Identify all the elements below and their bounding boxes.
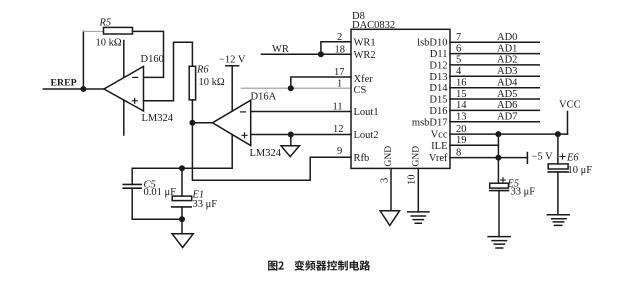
pin 14 number — [456, 100, 467, 111]
pin label D13 — [429, 72, 447, 83]
capacitor E5 polar plate — [490, 183, 509, 188]
pin label Vcc — [431, 130, 448, 141]
net label AD7 — [497, 112, 517, 123]
svg-text:D13: D13 — [429, 72, 447, 83]
svg-text:VCC: VCC — [559, 100, 581, 111]
pin 13 number — [456, 112, 467, 123]
IC U3 part number DAC0832 — [352, 20, 395, 31]
svg-text:R6: R6 — [196, 65, 209, 76]
svg-text:8: 8 — [456, 147, 461, 158]
svg-text:GND: GND — [384, 146, 394, 167]
net label AD2 — [497, 55, 517, 66]
svg-text:6: 6 — [456, 43, 461, 54]
wire op-amp U1 noninverting input to R6 top — [144, 42, 193, 101]
svg-text:AD3: AD3 — [497, 66, 517, 77]
wire AD0 pin 7 — [450, 41, 539, 43]
pin 20 number — [456, 124, 467, 135]
pin label Vref — [429, 153, 448, 164]
op-amp U2 D16A triangle — [213, 100, 251, 145]
net label AD5 — [497, 89, 517, 100]
capacitor E5 value — [511, 187, 536, 198]
pin 8 number — [456, 147, 461, 158]
wire branch to pin 17 Xfer — [291, 77, 351, 88]
capacitor E6 polar plate — [548, 164, 568, 169]
capacitor E1 value — [193, 199, 218, 210]
svg-text:Lout2: Lout2 — [354, 130, 379, 141]
svg-text:GND: GND — [411, 146, 421, 167]
capacitor C5 value — [144, 187, 177, 198]
svg-text:17: 17 — [334, 67, 345, 78]
svg-text:LM324: LM324 — [142, 113, 174, 124]
wire R5 right lead to inverting input — [133, 31, 164, 77]
pin label D14 — [429, 83, 448, 94]
power -12V bar — [226, 65, 239, 67]
node junction CS/Xfer — [288, 85, 294, 91]
svg-text:AD2: AD2 — [497, 55, 517, 66]
svg-text:15: 15 — [456, 89, 467, 100]
wire ground stub from Lout2 wire — [290, 135, 292, 146]
capacitor E1 label — [192, 190, 205, 201]
svg-text:E6: E6 — [566, 153, 579, 164]
svg-text:D16A: D16A — [251, 92, 277, 103]
svg-text:ILE: ILE — [431, 141, 447, 152]
svg-text:13: 13 — [456, 112, 467, 123]
svg-text:Vref: Vref — [429, 153, 448, 164]
pin label Rfb — [354, 153, 370, 164]
pin 6 number — [456, 43, 461, 54]
capacitor E5 label — [507, 179, 520, 190]
svg-text:10 kΩ: 10 kΩ — [96, 38, 122, 49]
op-amp U1 designator D160 — [141, 54, 164, 65]
node junction Vref E5 tap — [495, 155, 501, 161]
svg-text:D12: D12 — [429, 60, 447, 71]
pin label Lout1 — [354, 107, 379, 118]
wire op-amp U2 plus input to Lout2 pin 12 — [251, 134, 351, 136]
pin label D16 — [429, 106, 447, 117]
svg-text:WR2: WR2 — [354, 50, 376, 61]
wire tie pin20-pin19-pin8 vertical — [497, 134, 499, 158]
pin 17 number — [334, 67, 345, 78]
svg-text:Lout1: Lout1 — [354, 107, 379, 118]
node junction pin20 left — [495, 131, 501, 137]
net label AD4 — [497, 78, 518, 89]
svg-text:3: 3 — [380, 178, 391, 183]
capacitor E5 plus sign — [501, 178, 506, 183]
svg-text:9: 9 — [337, 146, 342, 157]
pin label Lout2 — [354, 130, 379, 141]
net label AD0 — [497, 32, 517, 43]
net label AD1 — [497, 43, 517, 54]
power -5V label — [532, 152, 554, 163]
svg-text:19: 19 — [456, 135, 467, 146]
capacitor C5 label — [144, 180, 156, 191]
node EREP junction — [80, 86, 86, 92]
svg-text:10 kΩ: 10 kΩ — [199, 77, 225, 88]
ground triangle below E1 — [172, 234, 193, 248]
wire E6 top lead — [557, 134, 559, 164]
ground triangle pin 3 — [380, 211, 400, 226]
node EREP label — [51, 78, 77, 89]
capacitor E6 plus sign — [560, 154, 565, 159]
resistor R6 label — [196, 65, 209, 76]
svg-text:AD0: AD0 — [497, 32, 517, 43]
resistor R6 value 10 kOhm — [199, 77, 225, 88]
capacitor E6 bottom plate — [548, 171, 568, 173]
svg-text:20: 20 — [456, 124, 467, 135]
op-amp U1 plus sign — [132, 98, 137, 103]
wire branch to pin 2 — [321, 42, 351, 55]
capacitor E1 bottom plate — [172, 206, 192, 208]
svg-text:7: 7 — [456, 32, 461, 43]
svg-text:EREP: EREP — [51, 78, 77, 89]
svg-text:4: 4 — [456, 66, 462, 77]
node junction WR — [318, 51, 324, 57]
ground hatch pin 10 — [408, 212, 429, 223]
wire R6 top lead — [191, 42, 193, 66]
resistor R5 — [104, 27, 133, 34]
op-amp U1 minus sign — [133, 76, 138, 78]
svg-text:D16: D16 — [429, 106, 447, 117]
ground hatch E5 — [488, 237, 510, 248]
wire AD3 pin 4 — [450, 75, 539, 77]
resistor R5 value 10 kOhm — [96, 38, 122, 49]
pin 18 number — [335, 45, 346, 56]
capacitor E1 polar plate — [172, 196, 192, 201]
svg-text:D160: D160 — [141, 54, 164, 65]
net label AD6 — [497, 100, 517, 111]
IC U3 DAC0832 box — [351, 29, 450, 168]
wire E1 top lead — [181, 168, 183, 196]
node EREP input wire — [43, 88, 104, 90]
svg-text:16: 16 — [456, 78, 467, 89]
pin 19 number — [456, 135, 467, 146]
op-amp U2 minus sign — [241, 111, 246, 113]
power VCC label — [559, 100, 581, 111]
pin 9 number — [337, 146, 342, 157]
wire op-amp U2 inverting input to Lout1 pin 11 — [251, 111, 351, 113]
svg-text:AD4: AD4 — [497, 78, 518, 89]
pin label D11 — [430, 49, 448, 60]
pin label Xfer — [354, 74, 374, 85]
svg-text:Vcc: Vcc — [431, 130, 448, 141]
net label AD3 — [497, 66, 517, 77]
wire Rfb loop from R6 node to pin 9 — [192, 123, 351, 181]
svg-text:2: 2 — [337, 32, 342, 43]
wire -12V rail down and left (behind op-amp) — [132, 66, 232, 169]
pin 16 number — [456, 78, 467, 89]
node junction E1 top — [179, 165, 185, 171]
svg-text:lsbD10: lsbD10 — [417, 38, 447, 49]
svg-text:D15: D15 — [429, 95, 447, 106]
pin 12 number — [333, 124, 344, 135]
svg-text:R5: R5 — [99, 18, 112, 29]
pin label CS — [354, 85, 367, 96]
wire E6 bottom lead — [557, 172, 559, 215]
svg-text:Xfer: Xfer — [354, 74, 374, 85]
svg-text:D11: D11 — [430, 49, 448, 60]
wire E1 bottom lead — [181, 207, 183, 234]
wire E5 bottom lead — [498, 191, 500, 237]
svg-text:33 μF: 33 μF — [511, 187, 536, 198]
svg-text:CS: CS — [354, 85, 367, 96]
svg-text:Rfb: Rfb — [354, 153, 370, 164]
svg-text:AD1: AD1 — [497, 43, 517, 54]
pin 7 number — [456, 32, 461, 43]
op-amp U1 part label LM324 — [142, 113, 174, 124]
IC U3 designator D8 — [352, 11, 365, 22]
wire op-amp U1 supply line (behind triangle) — [123, 41, 125, 136]
svg-text:LM324: LM324 — [250, 148, 282, 159]
svg-text:33 μF: 33 μF — [193, 199, 218, 210]
ground triangle below Lout2 wire — [281, 146, 300, 157]
resistor R5 label — [99, 18, 112, 29]
svg-text:WR1: WR1 — [354, 37, 376, 48]
svg-text:WR: WR — [272, 44, 289, 55]
svg-text:AD7: AD7 — [497, 112, 517, 123]
power -12V label — [219, 55, 246, 66]
wire AD6 pin 14 — [450, 109, 539, 111]
wire ILE pin 19 — [450, 144, 498, 146]
caption title 图2 变频器控制电路 — [268, 260, 370, 270]
pin label WR1 — [354, 37, 376, 48]
ground hatch E6 — [547, 215, 569, 226]
svg-text:AD6: AD6 — [497, 100, 517, 111]
op-amp U1 D160 triangle — [104, 66, 144, 111]
svg-text:10 μF: 10 μF — [568, 165, 593, 176]
wire C5 top lead — [131, 168, 133, 184]
svg-text:−12 V: −12 V — [219, 55, 246, 66]
wire feedback up from EREP node — [82, 31, 84, 89]
pin label ILE — [431, 141, 447, 152]
resistor R6 — [189, 66, 195, 100]
pin 1 number — [337, 79, 342, 90]
pin label GND pin3 rotated — [384, 146, 394, 167]
pin 5 number — [456, 55, 461, 66]
svg-text:DAC0832: DAC0832 — [352, 20, 395, 31]
wire Vref pin 8 to -5V — [450, 157, 527, 159]
node R6 output junction — [189, 120, 195, 126]
svg-text:AD5: AD5 — [497, 89, 517, 100]
pin label WR2 — [354, 50, 376, 61]
pin 4 number — [456, 66, 462, 77]
capacitor C5 — [123, 184, 141, 188]
op-amp U2 designator D16A — [251, 92, 277, 103]
wire AD5 pin 15 — [450, 98, 539, 100]
op-amp U2 plus sign — [242, 133, 247, 138]
pin label msbD17 — [412, 117, 448, 128]
svg-text:11: 11 — [333, 102, 343, 113]
wire R5 left lead — [83, 30, 103, 32]
op-amp U2 part label LM324 — [250, 148, 282, 159]
pin 3 number rotated — [380, 178, 391, 183]
node junction pin20 right E6 tap — [555, 131, 561, 137]
wire AD4 pin 16 — [450, 87, 539, 89]
pin label lsbD10 — [417, 38, 447, 49]
wire E5 top lead — [497, 158, 499, 184]
svg-text:−5 V: −5 V — [532, 152, 554, 163]
pin 10 number rotated — [407, 175, 418, 186]
svg-text:18: 18 — [335, 45, 346, 56]
svg-text:msbD17: msbD17 — [412, 117, 448, 128]
svg-text:5: 5 — [456, 55, 461, 66]
pin label D15 — [429, 95, 447, 106]
wire WR to pin 18 — [262, 53, 352, 55]
svg-text:D14: D14 — [429, 83, 448, 94]
svg-text:14: 14 — [456, 100, 467, 111]
pin label GND pin10 rotated — [411, 146, 421, 167]
wire CS pin 1 (gray) — [241, 87, 351, 89]
node WR label — [272, 44, 289, 55]
wire GND pin 3 stub — [390, 168, 392, 210]
capacitor E6 label — [566, 153, 579, 164]
pin 2 number — [337, 32, 342, 43]
pin label D12 — [429, 60, 447, 71]
svg-text:10: 10 — [407, 175, 418, 186]
wire Vcc pin 20 to VCC rail — [450, 133, 568, 135]
wire AD1 pin 6 — [450, 53, 539, 55]
node junction on Lout2 wire — [288, 132, 294, 138]
wire C5 bottom lead to E1 bottom — [132, 188, 182, 219]
svg-text:1: 1 — [337, 79, 342, 90]
wire VCC rail — [567, 112, 569, 135]
svg-text:0.01 μF: 0.01 μF — [144, 187, 177, 198]
capacitor E6 value — [568, 165, 593, 176]
wire op-amp U2 output — [192, 122, 212, 124]
pin 15 number — [456, 89, 467, 100]
wire R6 bottom lead — [191, 100, 193, 123]
capacitor E5 bottom plate — [490, 190, 509, 192]
wire GND pin 10 stub — [417, 168, 419, 212]
node junction E1 bottom — [179, 216, 185, 222]
wire AD7 pin 13 — [450, 121, 539, 123]
wire AD2 pin 5 — [450, 64, 539, 66]
pin 11 number — [333, 102, 343, 113]
svg-text:12: 12 — [333, 124, 344, 135]
power -5V terminal bar — [526, 153, 528, 164]
